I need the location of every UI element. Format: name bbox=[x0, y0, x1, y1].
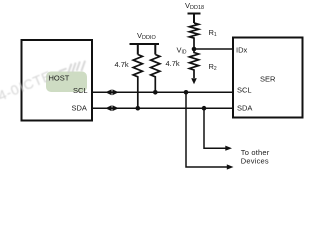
HOST highlight bbox=[46, 72, 87, 93]
junction dot SDA branch bbox=[202, 106, 207, 111]
wire SDA bbox=[92, 107, 233, 109]
junction dot SDA/pull-up bbox=[136, 106, 141, 111]
svg-text:SDA: SDA bbox=[237, 104, 252, 113]
power rail VDD18 bbox=[188, 14, 201, 24]
box HOST bbox=[22, 40, 93, 121]
wire SDA branch down bbox=[204, 108, 226, 148]
junction dot SCL/pull-up bbox=[153, 90, 158, 95]
power rail VDDIO bbox=[130, 44, 160, 55]
svg-text:SDA: SDA bbox=[72, 104, 87, 113]
arrow to other devices (upper) bbox=[225, 146, 232, 151]
wire SCL branch down bbox=[186, 92, 227, 167]
svg-text:IDx: IDx bbox=[236, 46, 248, 55]
wire IDx bbox=[194, 48, 233, 50]
arrow to other devices (lower) bbox=[227, 164, 234, 169]
resistor R2 bbox=[189, 49, 198, 78]
resistor 4.7k (SCL pull-up) bbox=[151, 55, 160, 93]
junction dot SCL branch bbox=[184, 90, 189, 95]
svg-text:SCL: SCL bbox=[237, 86, 252, 95]
svg-text:4.7k: 4.7k bbox=[115, 60, 129, 69]
node VID bbox=[192, 47, 197, 52]
svg-text:Devices: Devices bbox=[241, 157, 269, 166]
ground arrow (R2 bottom) bbox=[191, 78, 197, 84]
svg-text:4.7k: 4.7k bbox=[166, 59, 180, 68]
wire SCL bbox=[92, 91, 233, 93]
bidirectional arrow SDA bbox=[105, 105, 118, 111]
svg-text:HOST: HOST bbox=[49, 74, 70, 83]
svg-text:SCL: SCL bbox=[73, 86, 88, 95]
watermark bbox=[0, 67, 54, 103]
box SER bbox=[233, 38, 303, 118]
bidirectional arrow SCL bbox=[105, 89, 118, 95]
resistor 4.7k (SDA pull-up) bbox=[133, 55, 142, 109]
resistor R1 bbox=[189, 23, 198, 49]
svg-text:SER: SER bbox=[260, 75, 276, 84]
